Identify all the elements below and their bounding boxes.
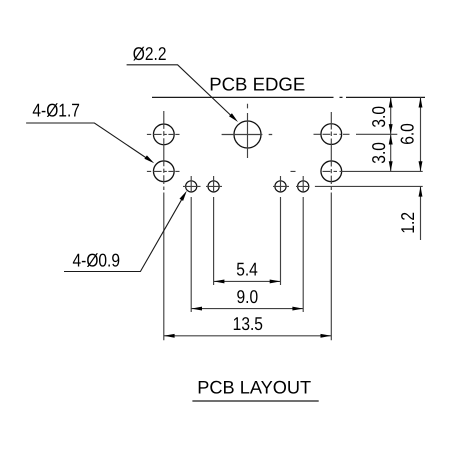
centerline horizontal of hole H2 xyxy=(147,170,180,172)
svg-text:3.0: 3.0 xyxy=(368,142,389,164)
arrowhead up at small-hole row xyxy=(419,186,423,196)
dimension text 3.0 (upper) xyxy=(368,106,389,128)
dimension line 3.0 (row1 to row2) xyxy=(390,134,392,171)
arrowhead right of 9.0 xyxy=(292,307,303,311)
centerline horizontal of hole H3 xyxy=(222,134,273,136)
dimension line 5.4 (inner small holes) xyxy=(214,280,281,282)
hole H2 (lower-left, dia 1.7) xyxy=(153,161,174,182)
arrowhead of 4-Ø1.7 leader xyxy=(144,155,154,163)
arrowhead of 4-Ø0.9 leader xyxy=(180,191,187,201)
leader of label Ø2.2 xyxy=(127,65,232,116)
centerline vertical of right hole column (extension to 13.5 dim) xyxy=(330,112,332,340)
dimension line 3.0 (edge to row1) xyxy=(390,97,392,134)
svg-text:PCB EDGE: PCB EDGE xyxy=(209,74,305,95)
arrowhead right of 5.4 xyxy=(270,279,281,283)
centerline vertical of hole S2 + extension to 5.4 dim xyxy=(213,176,215,285)
PCB edge line xyxy=(152,96,425,98)
arrowhead up at row1 xyxy=(389,134,393,144)
centerline vertical of hole S1 + extension to 9.0 dim xyxy=(190,176,192,312)
dimension text 9.0 xyxy=(236,286,258,307)
svg-text:PCB LAYOUT: PCB LAYOUT xyxy=(197,377,311,397)
arrowhead left of 13.5 xyxy=(164,334,175,338)
arrowhead left of 5.4 xyxy=(214,279,225,283)
hole H5 (lower-right, dia 1.7) xyxy=(321,161,342,182)
centerline horizontal of hole H5 + extension line to 6.0 dim xyxy=(291,170,423,172)
centerline horizontal of hole H4 + extension line to 3.0 dim xyxy=(314,133,398,135)
leader of label 4-Ø1.7 xyxy=(26,123,148,159)
hole H4 (upper-right, dia 1.7) xyxy=(321,124,342,145)
centerline vertical of hole S3 + extension to 5.4 dim xyxy=(280,176,282,285)
arrowhead up at edge xyxy=(389,97,393,107)
svg-text:1.2: 1.2 xyxy=(397,212,418,234)
label Ø2.2 xyxy=(133,43,167,64)
dimension text 13.5 xyxy=(233,313,263,334)
label 4-Ø1.7 xyxy=(32,99,80,120)
dimension text 5.4 xyxy=(236,258,258,279)
label 4-Ø0.9 xyxy=(73,249,121,270)
centerline horizontal of hole H1 xyxy=(147,133,180,135)
hole S1 (small dia 0.9) xyxy=(186,181,197,192)
arrowhead left of 9.0 xyxy=(191,307,202,311)
arrowhead of Ø2.2 leader xyxy=(229,113,238,122)
dimension text 6.0 xyxy=(396,123,417,145)
arrowhead up at edge xyxy=(419,97,423,107)
leader of label 4-Ø0.9 xyxy=(64,200,182,272)
svg-text:4-Ø0.9: 4-Ø0.9 xyxy=(73,249,121,270)
svg-text:13.5: 13.5 xyxy=(233,313,263,334)
svg-text:5.4: 5.4 xyxy=(236,258,258,279)
hole S4 (small dia 0.9) xyxy=(298,181,309,192)
svg-text:9.0: 9.0 xyxy=(236,286,258,307)
dimension line 9.0 (outer small holes) xyxy=(191,308,303,310)
hole S2 (small dia 0.9) xyxy=(208,181,219,192)
underline of PCB LAYOUT xyxy=(192,400,318,402)
arrowhead down at row1 xyxy=(389,124,393,134)
arrowhead down at row2 xyxy=(419,161,423,171)
centerline vertical of hole S4 + extension to 9.0 dim xyxy=(302,176,304,312)
dimension text 1.2 xyxy=(397,212,418,234)
dimension line 1.2 (row2 to small-hole row, arrow outside) xyxy=(420,186,422,240)
svg-text:6.0: 6.0 xyxy=(396,123,417,145)
arrowhead right of 13.5 xyxy=(321,334,332,338)
hole H3 (center, dia 2.2) xyxy=(234,121,261,148)
centerline vertical of left hole column (extension to 13.5 dim) xyxy=(163,111,165,340)
centerline vertical of hole H3 xyxy=(247,104,249,158)
svg-text:3.0: 3.0 xyxy=(368,106,389,128)
dimension line 6.0 (edge to row2) xyxy=(420,97,422,171)
svg-text:Ø2.2: Ø2.2 xyxy=(133,43,167,64)
hole H1 (upper-left, dia 1.7) xyxy=(153,124,174,145)
dimension line 13.5 (hole columns) xyxy=(164,335,331,337)
arrowhead down at row2 xyxy=(389,161,393,171)
svg-text:4-Ø1.7: 4-Ø1.7 xyxy=(32,99,80,120)
hole S3 (small dia 0.9) xyxy=(275,181,286,192)
dimension text 3.0 (lower) xyxy=(368,142,389,164)
centerline horizontal of small holes row + extension line to 1.2 dim xyxy=(183,185,423,187)
